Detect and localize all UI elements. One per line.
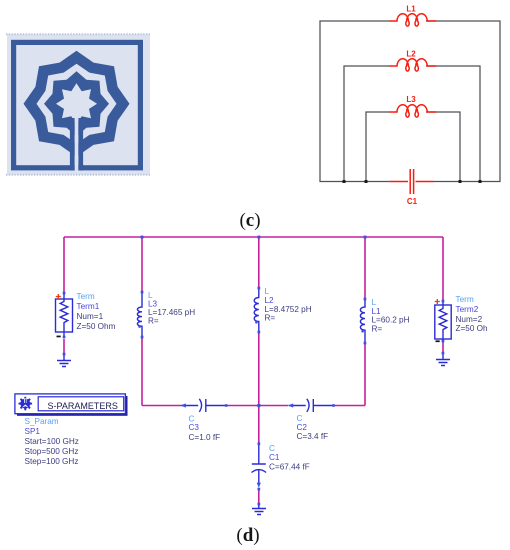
- svg-text:S-PARAMETERS: S-PARAMETERS: [48, 401, 118, 411]
- svg-text:L2: L2: [265, 296, 275, 305]
- svg-text:R=: R=: [372, 325, 383, 334]
- svg-text:Term: Term: [456, 295, 474, 304]
- svg-text:Start=100 GHz: Start=100 GHz: [25, 437, 79, 446]
- svg-text:C=67.44 fF: C=67.44 fF: [269, 463, 310, 472]
- svg-text:Step=100 GHz: Step=100 GHz: [25, 457, 79, 466]
- svg-text:Num=2: Num=2: [456, 315, 483, 324]
- svg-text:L: L: [372, 298, 377, 307]
- svg-text:R=: R=: [265, 314, 276, 323]
- svg-text:Z=50 Oh: Z=50 Oh: [456, 324, 489, 333]
- svg-text:C2: C2: [297, 423, 308, 432]
- svg-text:Term1: Term1: [77, 302, 100, 311]
- svg-text:C: C: [297, 414, 303, 423]
- svg-text:C3: C3: [189, 423, 200, 432]
- svg-text:S_Param: S_Param: [25, 417, 59, 426]
- svg-text:C1: C1: [269, 453, 280, 462]
- svg-text:L1: L1: [406, 5, 416, 14]
- svg-text:L=60.2 pH: L=60.2 pH: [372, 316, 410, 325]
- svg-text:Term: Term: [77, 292, 95, 301]
- svg-text:C1: C1: [407, 197, 418, 206]
- svg-text:C=3.4 fF: C=3.4 fF: [297, 432, 329, 441]
- svg-text:Term2: Term2: [456, 305, 479, 314]
- svg-text:L2: L2: [406, 50, 416, 59]
- svg-text:C=1.0 fF: C=1.0 fF: [189, 433, 221, 442]
- svg-text:SP1: SP1: [25, 427, 41, 436]
- svg-text:Z=50 Ohm: Z=50 Ohm: [77, 322, 116, 331]
- svg-text:Num=1: Num=1: [77, 312, 104, 321]
- svg-text:R=: R=: [148, 317, 159, 326]
- svg-text:C: C: [269, 444, 275, 453]
- svg-text:L3: L3: [406, 95, 416, 104]
- svg-text:Stop=500 GHz: Stop=500 GHz: [25, 447, 79, 456]
- svg-text:L: L: [265, 287, 270, 296]
